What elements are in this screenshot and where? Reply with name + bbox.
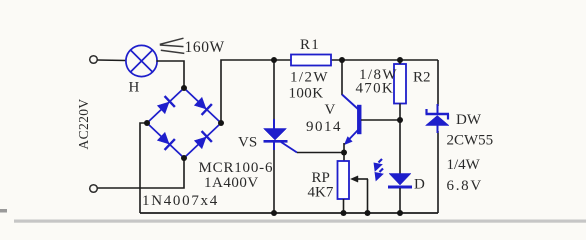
RP bottom wire xyxy=(343,199,345,213)
node R2 top rail xyxy=(397,57,403,63)
wire emitter down to node xyxy=(343,143,345,153)
node R1 collector rail xyxy=(339,57,345,63)
bridge diode D4 (lower-right, points to right corner) xyxy=(193,131,212,150)
left edge smudge xyxy=(0,209,7,213)
terminal top-left xyxy=(90,56,98,64)
light arrow 1 xyxy=(374,159,382,171)
bottom rail xyxy=(140,212,438,214)
node VS anode rail xyxy=(271,57,277,63)
wire VS gate to emitter node xyxy=(297,152,344,154)
resistor R2 xyxy=(394,64,406,104)
lamp H xyxy=(126,45,157,76)
potentiometer RP xyxy=(338,161,350,199)
wire R2 bottom to node xyxy=(399,104,401,121)
bridge rectifier diamond xyxy=(147,88,221,158)
light arrow 2 xyxy=(375,169,383,181)
svg-text:VS: VS xyxy=(238,135,257,151)
wire D to bottom rail xyxy=(399,188,401,213)
right branch wire with zener xyxy=(437,60,439,106)
svg-text:1/2W: 1/2W xyxy=(290,70,329,86)
node RP bottom rail xyxy=(341,210,347,216)
svg-text:V: V xyxy=(325,102,336,118)
wire lamp to bridge top xyxy=(156,61,184,88)
svg-text:H: H xyxy=(129,80,140,96)
svg-text:R1: R1 xyxy=(300,37,320,53)
label <=160W xyxy=(160,38,185,53)
svg-text:2CW55: 2CW55 xyxy=(447,133,494,149)
wire node to photodiode xyxy=(399,120,401,174)
node VS cathode rail xyxy=(271,210,277,216)
bridge diode D3 (lower-left, points to bottom corner) xyxy=(156,131,175,150)
svg-text:1N4007x4: 1N4007x4 xyxy=(142,193,219,209)
svg-text:470K: 470K xyxy=(356,81,395,97)
wire R2 top xyxy=(399,60,401,64)
svg-text:9014: 9014 xyxy=(306,119,342,135)
svg-text:100K: 100K xyxy=(289,86,324,102)
node emitter gate RP xyxy=(341,150,347,156)
RP wiper arrow xyxy=(351,176,369,213)
bridge diode D1 (upper-left, points to top corner) xyxy=(156,96,175,115)
svg-text:160W: 160W xyxy=(185,39,225,56)
svg-text:1/4W: 1/4W xyxy=(447,157,481,173)
wire bridge right corner up to top rail xyxy=(221,60,291,123)
svg-text:D: D xyxy=(414,177,425,193)
bottom scan band xyxy=(14,220,586,223)
terminal bottom-left xyxy=(90,185,98,193)
node bridge left xyxy=(144,120,150,126)
wire bridge left corner to bottom rail xyxy=(140,123,147,213)
node bridge top xyxy=(181,85,187,91)
wire terminal2 to bridge bottom corner xyxy=(98,158,185,188)
bridge diode D2 (upper-right, points to right corner) xyxy=(193,96,212,115)
photodiode D xyxy=(388,174,412,188)
zener DW xyxy=(426,104,450,133)
top rail right of R1 xyxy=(331,59,438,61)
wire collector from R1 right junction xyxy=(341,60,343,95)
wire base to divider node xyxy=(361,119,400,121)
svg-text:R2: R2 xyxy=(413,70,431,86)
svg-text:AC220V: AC220V xyxy=(76,98,91,149)
thyristor VS vertical wire xyxy=(273,60,275,128)
svg-text:DW: DW xyxy=(456,112,482,128)
thyristor VS symbol xyxy=(264,119,298,153)
resistor R1 xyxy=(291,55,331,66)
svg-text:4K7: 4K7 xyxy=(308,185,334,201)
node D bottom rail xyxy=(397,210,403,216)
node bridge right xyxy=(218,120,224,126)
wire terminal to lamp xyxy=(98,59,127,62)
node wiper rail xyxy=(365,210,371,216)
svg-text:6.8V: 6.8V xyxy=(447,178,483,194)
node base divider xyxy=(397,117,403,123)
svg-text:1A400V: 1A400V xyxy=(204,175,259,191)
potentiometer RP wire from node xyxy=(343,153,345,162)
node bridge bottom xyxy=(181,155,187,161)
transistor V1 9014 xyxy=(342,95,361,145)
svg-text:MCR100-6: MCR100-6 xyxy=(199,160,274,176)
